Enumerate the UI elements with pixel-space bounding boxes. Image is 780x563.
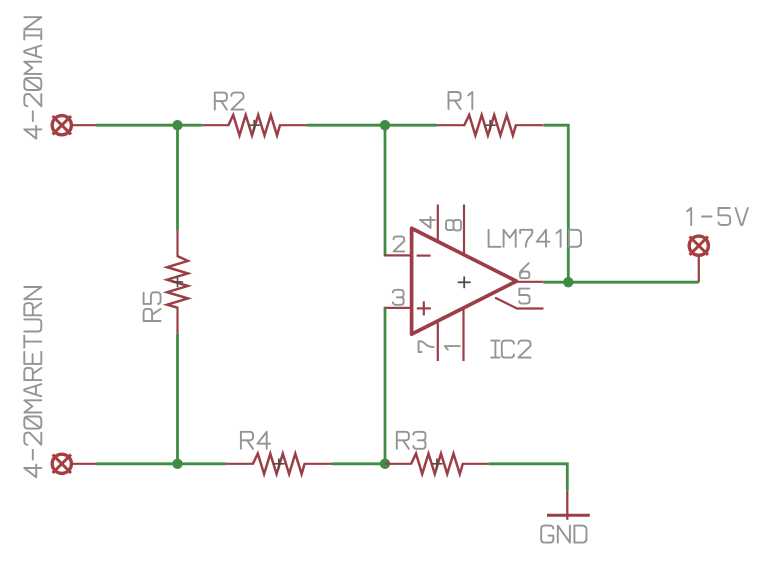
resistor R2 [202,124,230,126]
node junction output [563,277,573,287]
label LM741D [489,230,581,247]
pin 3 number [393,290,404,305]
pin 5 (offset null) [495,298,544,309]
terminal pad 4-20MARETURN [52,454,71,473]
label R3 [397,432,426,449]
pin 1 number [445,346,460,350]
wire [384,308,387,464]
pad pin wire [698,256,700,282]
IC2 origin cross [458,281,471,283]
label R1 [449,92,473,109]
label 1-5V [687,208,748,225]
node junction R2/R1/pin2 [380,120,390,130]
resistor R5 [176,230,178,257]
wire [176,125,179,230]
wire [176,334,179,464]
wire [543,125,568,282]
R2 origin cross [249,124,260,126]
pin 6 number [520,263,529,278]
wire [384,125,387,255]
resistor R3 [385,463,412,465]
R1 origin cross [485,124,496,126]
non-inverting input marker [417,307,431,309]
pin 6 (output) [517,281,543,283]
pin 2 number [394,236,405,251]
wire [178,124,202,127]
ground [566,490,568,520]
pin 7 (V+) [437,321,439,361]
terminal pad 4-20MAIN [52,116,71,135]
R3 origin cross [431,463,442,465]
node junction return/R5/R4 [172,459,182,469]
pin 8 number [446,220,461,231]
pin 4 number [420,217,435,228]
pin 5 number [519,289,529,304]
R4 origin cross [273,463,284,465]
wire [332,462,385,465]
wire [96,124,178,127]
node junction R4/R3/pin3 [380,459,390,469]
label 4-20MARETURN [24,287,41,477]
pin 7 number [419,341,434,352]
label 4-20MAIN [24,17,41,138]
resistor R1 [437,124,465,126]
wire [489,464,567,491]
wire [543,281,699,284]
op-amp IC2 body [412,228,517,334]
inverting input marker [417,255,431,257]
pad pin wire [72,463,96,465]
label R5 [144,292,161,321]
wire [385,124,437,127]
label R4 [241,432,270,449]
R5 origin cross [172,281,183,283]
node junction R5/R2 [172,120,182,130]
wire [96,462,178,465]
wire [178,462,226,465]
pin 2 (inverting input) [384,254,412,256]
pin 4 (V-) [437,205,439,243]
pin 1 (offset null) [462,309,464,362]
label IC2 [491,341,530,358]
terminal pad 1-5V [689,236,708,255]
wire [307,124,385,127]
pin 8 (NC) [463,205,465,255]
pin 3 (non-inverting input) [384,307,412,309]
label GND [541,526,586,543]
pad pin wire [72,124,96,126]
label R2 [215,93,244,110]
resistor R4 [226,463,254,465]
